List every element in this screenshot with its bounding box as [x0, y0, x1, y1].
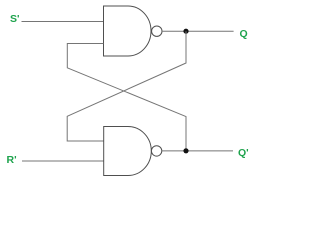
wire R' input to U2 pin 2: [22, 160, 104, 162]
junction node Q': [183, 148, 188, 153]
wire feedback Q' to U1 pin 2: [67, 44, 186, 151]
label Q: [240, 28, 248, 40]
svg-text:S': S': [10, 13, 20, 25]
inversion bubble U1: [152, 26, 162, 36]
junction node Q: [183, 29, 188, 34]
svg-text:Q': Q': [238, 147, 249, 159]
wire U2 output to Q': [162, 150, 233, 152]
svg-text:R': R': [7, 154, 17, 166]
wire S' input to U1 pin 1: [22, 21, 104, 23]
wire U1 output to Q: [162, 30, 234, 32]
wire feedback Q to U2 pin 1: [67, 31, 186, 141]
NAND gate U2 (bottom): [104, 127, 152, 176]
NAND gate U1 (top): [104, 6, 152, 56]
svg-text:Q: Q: [240, 28, 248, 40]
inversion bubble U2: [151, 146, 161, 156]
label S': [10, 13, 20, 25]
label Q': [238, 147, 249, 159]
label R': [7, 154, 17, 166]
